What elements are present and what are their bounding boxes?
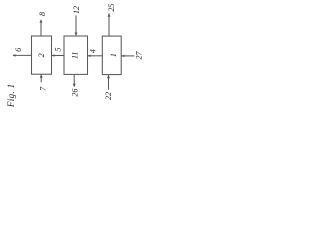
svg-text:6: 6 <box>14 48 23 52</box>
svg-text:7: 7 <box>39 86 48 91</box>
svg-text:Fig. 1: Fig. 1 <box>6 83 16 108</box>
svg-text:8: 8 <box>38 12 47 16</box>
svg-text:4: 4 <box>89 49 98 53</box>
svg-text:27: 27 <box>135 51 144 60</box>
svg-text:2: 2 <box>37 53 46 57</box>
svg-text:22: 22 <box>104 92 113 100</box>
svg-text:25: 25 <box>107 4 116 12</box>
svg-text:1: 1 <box>109 53 118 57</box>
svg-text:5: 5 <box>53 48 62 52</box>
svg-text:12: 12 <box>72 6 81 14</box>
svg-text:11: 11 <box>71 52 80 59</box>
svg-text:26: 26 <box>70 89 79 97</box>
